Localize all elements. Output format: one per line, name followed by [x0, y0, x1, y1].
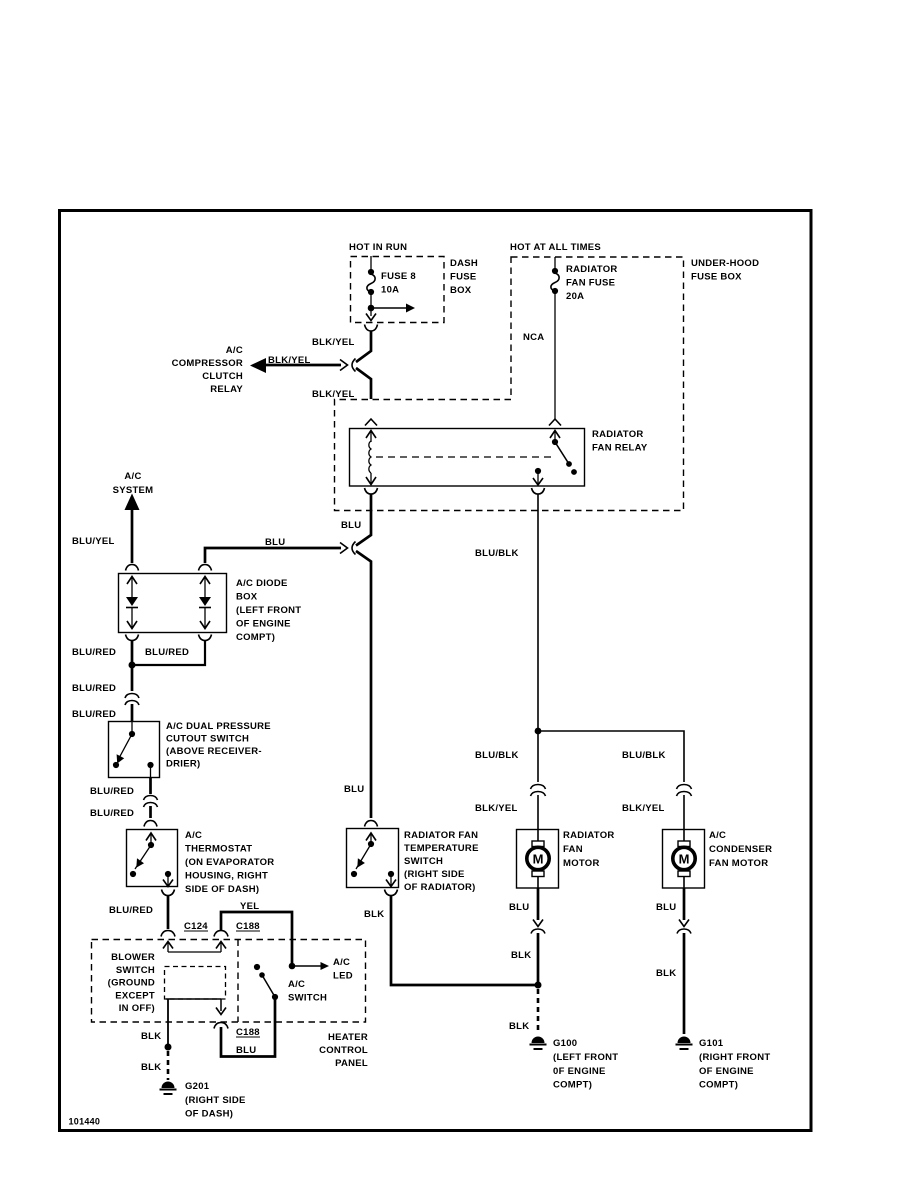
connector cup below temperature switch	[385, 890, 398, 896]
svg-text:BLU: BLU	[236, 1045, 256, 1056]
svg-text:C188: C188	[236, 1027, 260, 1038]
svg-text:C124: C124	[184, 921, 208, 932]
svg-text:A/C DIODE: A/C DIODE	[236, 578, 288, 589]
svg-text:DRIER): DRIER)	[166, 759, 200, 770]
svg-text:BLU: BLU	[656, 902, 676, 913]
svg-text:BLK/YEL: BLK/YEL	[622, 803, 665, 814]
connector hat above radiator fan temperature switch	[365, 821, 378, 827]
wire BLU to A/C switch	[221, 998, 275, 1057]
svg-text:EXCEPT: EXCEPT	[115, 990, 155, 1001]
svg-text:OF ENGINE: OF ENGINE	[699, 1066, 754, 1077]
label BLK/YEL lower	[312, 389, 355, 400]
relay switch pin arrow	[550, 431, 560, 443]
svg-text:BLK: BLK	[509, 1021, 529, 1032]
svg-text:BLK: BLK	[141, 1062, 161, 1073]
svg-text:RADIATOR: RADIATOR	[566, 264, 618, 275]
svg-text:BLK: BLK	[511, 950, 531, 961]
relay switch blade	[552, 439, 577, 475]
svg-text:BLU/YEL: BLU/YEL	[72, 536, 115, 547]
wire junction to box edge with pin arrow	[366, 308, 376, 321]
label A/C LED	[333, 957, 353, 982]
splice connector BLU	[340, 542, 356, 555]
label BLU lower	[236, 1045, 256, 1056]
under-hood fuse box outline	[335, 257, 684, 511]
svg-text:0F ENGINE: 0F ENGINE	[553, 1066, 606, 1077]
svg-text:(RIGHT FRONT: (RIGHT FRONT	[699, 1052, 770, 1063]
wire arrow to A/C system	[125, 494, 140, 564]
radiator fan motor M1	[527, 841, 549, 877]
svg-text:BOX: BOX	[236, 592, 258, 603]
label BLU/BLK top	[475, 548, 519, 559]
node junction dot A/C LED	[289, 962, 329, 970]
svg-text:COMPT): COMPT)	[699, 1080, 738, 1091]
node splice dot BLK motors	[535, 982, 542, 989]
wire into thermostat	[149, 806, 152, 818]
label BLU/RED mid	[145, 647, 189, 658]
label BLU/RED below connector	[72, 709, 116, 720]
blower switch inner dashed box	[165, 967, 226, 1000]
svg-text:BLU/RED: BLU/RED	[90, 786, 134, 797]
svg-text:SWITCH: SWITCH	[404, 856, 443, 867]
svg-text:C188: C188	[236, 921, 260, 932]
node HOT AT ALL TIMES	[510, 242, 601, 253]
svg-text:UNDER-HOOD: UNDER-HOOD	[691, 258, 759, 269]
label BLU main run	[344, 784, 364, 795]
dash fuse box outline	[351, 257, 445, 323]
radiator fan motor label	[563, 830, 615, 869]
A/C condenser fan motor M2	[673, 841, 695, 877]
svg-text:BLU/RED: BLU/RED	[90, 808, 134, 819]
svg-text:(ABOVE RECEIVER-: (ABOVE RECEIVER-	[166, 746, 262, 757]
svg-text:SWITCH: SWITCH	[116, 965, 155, 976]
connector below radiator motor	[531, 920, 545, 934]
svg-text:HEATER: HEATER	[328, 1032, 368, 1043]
svg-text:NCA: NCA	[523, 332, 544, 343]
label BLK left motor	[511, 950, 531, 961]
svg-text:HOUSING, RIGHT: HOUSING, RIGHT	[185, 871, 268, 882]
wire BLU/RED thermostat to C124	[167, 896, 170, 930]
radiator fan temperature switch box	[347, 829, 399, 888]
svg-text:RADIATOR: RADIATOR	[592, 429, 644, 440]
node HOT IN RUN	[349, 242, 407, 253]
label BLU/RED above thermostat	[90, 808, 134, 819]
svg-text:COMPRESSOR: COMPRESSOR	[172, 358, 243, 369]
svg-text:RADIATOR FAN: RADIATOR FAN	[404, 830, 478, 841]
svg-text:BLU: BLU	[341, 520, 361, 531]
label HEATER CONTROL PANEL	[319, 1032, 368, 1069]
svg-text:(ON EVAPORATOR: (ON EVAPORATOR	[185, 857, 274, 868]
svg-text:BLOWER: BLOWER	[111, 952, 155, 963]
svg-text:FAN FUSE: FAN FUSE	[566, 278, 615, 289]
wire BLU/RED splice to right branch	[132, 641, 205, 666]
svg-text:A/C: A/C	[124, 471, 141, 482]
node junction dot with branch arrow	[368, 304, 415, 313]
label BLU right motor	[656, 902, 676, 913]
svg-text:G201: G201	[185, 1081, 210, 1092]
svg-text:A/C: A/C	[709, 830, 726, 841]
svg-text:BLU/RED: BLU/RED	[72, 709, 116, 720]
svg-text:BLK: BLK	[141, 1031, 161, 1042]
svg-text:TEMPERATURE: TEMPERATURE	[404, 843, 479, 854]
svg-text:SIDE OF DASH): SIDE OF DASH)	[185, 884, 259, 895]
ground G100 label	[553, 1038, 618, 1091]
label BLU/YEL	[72, 536, 115, 547]
svg-text:A/C: A/C	[288, 979, 305, 990]
svg-text:(LEFT FRONT: (LEFT FRONT	[236, 605, 301, 616]
svg-text:20A: 20A	[566, 291, 584, 302]
label BLK/YEL left	[475, 803, 518, 814]
connector chevron above relay switch pin	[549, 419, 561, 426]
A/C thermostat label	[185, 830, 274, 895]
label BLK above G100	[509, 1021, 529, 1032]
label BLU left motor	[509, 902, 529, 913]
connector C188 upper	[214, 921, 260, 937]
svg-text:OF RADIATOR): OF RADIATOR)	[404, 882, 476, 893]
fuse F8 10A	[367, 269, 416, 296]
svg-text:CLUTCH: CLUTCH	[202, 371, 243, 382]
in-line connector right motor feed	[677, 785, 692, 797]
node splice dot BLU/RED	[129, 662, 136, 669]
fuse radiator fan 20A	[551, 264, 618, 302]
svg-text:A/C: A/C	[226, 345, 243, 356]
svg-text:BLU/RED: BLU/RED	[72, 647, 116, 658]
svg-text:BLU/BLK: BLU/BLK	[475, 548, 519, 559]
svg-text:A/C DUAL PRESSURE: A/C DUAL PRESSURE	[166, 721, 271, 732]
label A/C COMPRESSOR CLUTCH RELAY	[172, 345, 244, 395]
connector cup below dash fuse box	[365, 325, 378, 332]
svg-text:OF DASH): OF DASH)	[185, 1109, 233, 1120]
wire BLU horizontal to diode box	[205, 548, 341, 563]
label BLK lower	[141, 1062, 161, 1073]
label BLU right of splice	[341, 520, 361, 531]
splice connector to A/C compressor clutch relay	[340, 359, 356, 372]
wire BLK dashed to G201	[167, 1051, 170, 1080]
svg-text:HOT IN RUN: HOT IN RUN	[349, 242, 407, 253]
svg-text:A/C: A/C	[185, 830, 202, 841]
svg-text:BLK/YEL: BLK/YEL	[475, 803, 518, 814]
connector C124	[161, 921, 208, 937]
wire BLU/RED left branch to splice	[131, 641, 134, 664]
wire BLK blower switch down	[167, 999, 169, 1045]
svg-text:BOX: BOX	[450, 285, 472, 296]
svg-text:BLU/RED: BLU/RED	[145, 647, 189, 658]
svg-text:BLU/RED: BLU/RED	[72, 683, 116, 694]
svg-text:(RIGHT SIDE: (RIGHT SIDE	[404, 869, 465, 880]
wire BLK to G101	[683, 933, 686, 1034]
wire BLU splice down main run	[356, 551, 371, 818]
wire BLU radiator motor down	[537, 877, 539, 920]
ground G201 label	[185, 1081, 246, 1120]
connector hat above diode box left pin	[126, 565, 139, 571]
wire fuse8 feed	[370, 256, 372, 271]
svg-text:M: M	[679, 852, 690, 867]
svg-text:BLU/BLK: BLU/BLK	[475, 750, 519, 761]
label A/C SYSTEM	[113, 471, 154, 496]
label BLU/BLK left	[475, 750, 519, 761]
label BLK right motor	[656, 968, 676, 979]
svg-text:(RIGHT SIDE: (RIGHT SIDE	[185, 1095, 246, 1106]
svg-text:G101: G101	[699, 1038, 724, 1049]
svg-text:RELAY: RELAY	[210, 384, 243, 395]
svg-text:MOTOR: MOTOR	[563, 858, 600, 869]
svg-text:M: M	[533, 852, 544, 867]
svg-text:SYSTEM: SYSTEM	[113, 485, 154, 496]
svg-text:DASH: DASH	[450, 258, 478, 269]
blower switch label	[108, 952, 155, 1014]
wire BLK to splice	[537, 933, 540, 983]
svg-text:BLK/YEL: BLK/YEL	[312, 389, 355, 400]
svg-text:FAN MOTOR: FAN MOTOR	[709, 858, 768, 869]
connector chevron above relay coil pin	[365, 419, 377, 426]
wire BLU/RED splice down	[131, 665, 134, 691]
blower switch pin arrows and bar	[163, 942, 226, 953]
connector below condenser motor	[677, 920, 691, 934]
label BLK/YEL on arrow	[268, 355, 311, 366]
wire BLK/YEL down to splice	[356, 331, 371, 362]
svg-text:THERMOSTAT: THERMOSTAT	[185, 844, 252, 855]
svg-text:BLU: BLU	[344, 784, 364, 795]
A/C switch contacts and blade	[254, 964, 278, 1000]
radiator fan temperature switch label	[404, 830, 479, 893]
svg-text:BLU/BLK: BLU/BLK	[622, 750, 666, 761]
wire YEL	[221, 912, 292, 963]
dash fuse box label	[450, 258, 478, 296]
svg-text:CUTOUT SWITCH: CUTOUT SWITCH	[166, 734, 249, 745]
ground G201	[160, 1082, 177, 1094]
in-line connector left motor feed	[531, 785, 546, 797]
wire BLK/YEL into radiator fan motor	[537, 795, 539, 841]
svg-text:HOT AT ALL TIMES: HOT AT ALL TIMES	[510, 242, 601, 253]
wire radiator fan fuse feed	[554, 257, 556, 271]
node splice dot BLK	[165, 1044, 172, 1051]
A/C diode box outline	[119, 574, 227, 633]
svg-text:BLK: BLK	[656, 968, 676, 979]
dual pressure switch contacts and blade	[113, 721, 154, 777]
svg-text:BLK/YEL: BLK/YEL	[312, 337, 355, 348]
connector hat above diode box right pin	[199, 565, 212, 571]
svg-text:BLK: BLK	[364, 909, 384, 920]
label NCA	[523, 332, 544, 343]
relay internal dashed link	[376, 456, 553, 458]
radiator fan relay label	[592, 429, 648, 454]
connector cup below relay output pin	[532, 488, 545, 494]
svg-text:G100: G100	[553, 1038, 577, 1049]
svg-text:(LEFT FRONT: (LEFT FRONT	[553, 1052, 618, 1063]
svg-text:COMPT): COMPT)	[553, 1080, 592, 1091]
wire BLK dashed to G100	[537, 989, 540, 1034]
relay coil pin arrow	[366, 431, 376, 443]
label BLU/RED below dual pressure switch	[90, 786, 134, 797]
ground G100	[530, 1037, 547, 1050]
radiator fan relay box	[350, 429, 585, 487]
label BLU/BLK right	[622, 750, 666, 761]
svg-text:CONDENSER: CONDENSER	[709, 844, 772, 855]
label BLK/YEL upper	[312, 337, 355, 348]
svg-text:FAN RELAY: FAN RELAY	[592, 443, 648, 454]
label YEL	[240, 901, 259, 912]
radiator fan motor box	[517, 830, 559, 889]
svg-text:IN OFF): IN OFF)	[119, 1003, 155, 1014]
wire arrow to A/C compressor clutch relay	[250, 358, 341, 373]
label A/C SWITCH	[288, 979, 327, 1004]
wire NCA	[554, 293, 556, 419]
A/C diode box label	[236, 578, 301, 643]
svg-text:BLU: BLU	[265, 537, 285, 548]
wire BLU/RED to thermostat connector	[149, 777, 152, 794]
node junction dot BLU/BLK	[535, 728, 542, 735]
label BLK/YEL right	[622, 803, 665, 814]
relay coil bottom arrow	[366, 473, 376, 485]
wire BLK temp switch to splice	[391, 896, 535, 986]
wire BLU/BLK branch horizontal	[538, 731, 684, 782]
connector cup below thermostat	[162, 890, 175, 896]
svg-text:101440: 101440	[69, 1117, 101, 1127]
wire fuse8 to junction	[370, 294, 372, 309]
relay coil	[369, 441, 371, 473]
ground G101 label	[699, 1038, 770, 1091]
blower switch output wire and arrow to C188	[166, 999, 226, 1015]
heater control panel dashed box	[92, 940, 366, 1023]
label BLU/RED below thermostat	[109, 905, 153, 916]
svg-text:OF ENGINE: OF ENGINE	[236, 619, 291, 630]
temperature switch contacts and blade	[351, 833, 396, 887]
ground G101	[676, 1037, 693, 1050]
svg-text:COMPT): COMPT)	[236, 632, 275, 643]
connector hat above thermostat box	[144, 821, 157, 827]
thermostat contacts and blade	[130, 833, 173, 887]
connector cup below diode box right pin	[199, 635, 212, 641]
svg-text:A/C: A/C	[333, 957, 350, 968]
A/C dual pressure cutout switch label	[166, 721, 271, 770]
connector cup below diode box left pin	[126, 635, 139, 641]
svg-text:PANEL: PANEL	[335, 1058, 368, 1069]
wire BLK/YEL splice down to relay box	[356, 368, 371, 399]
svg-text:BLU: BLU	[509, 902, 529, 913]
svg-text:FUSE BOX: FUSE BOX	[691, 272, 742, 283]
diode D2 right branch	[199, 577, 211, 629]
svg-text:CONTROL: CONTROL	[319, 1045, 368, 1056]
svg-text:SWITCH: SWITCH	[288, 993, 327, 1004]
label BLU horizontal	[265, 537, 285, 548]
diode D1 left branch	[126, 577, 138, 629]
svg-text:YEL: YEL	[240, 901, 259, 912]
wire BLU condenser motor down	[683, 877, 685, 920]
label BLU/RED left of splice	[72, 647, 116, 658]
svg-text:10A: 10A	[381, 285, 399, 296]
svg-text:BLU/RED: BLU/RED	[109, 905, 153, 916]
relay switch output pin	[533, 468, 543, 485]
in-line connector on BLU/RED	[125, 694, 139, 706]
wire BLU/BLK relay output down	[537, 494, 539, 731]
under-hood fuse box label	[691, 258, 759, 283]
connector cup below relay coil pin	[365, 488, 378, 494]
label BLU/RED above connector	[72, 683, 116, 694]
svg-text:LED: LED	[333, 971, 353, 982]
wire BLU/BLK down to connector	[537, 731, 539, 782]
wire BLK/YEL into condenser fan motor	[683, 795, 685, 841]
A/C condenser fan motor box	[663, 830, 705, 889]
wire BLU relay to splice	[356, 494, 371, 546]
in-line connector above thermostat	[144, 796, 158, 808]
label BLK temp switch	[364, 909, 384, 920]
svg-text:BLK/YEL: BLK/YEL	[268, 355, 311, 366]
label BLK upper	[141, 1031, 161, 1042]
A/C thermostat box	[127, 830, 178, 887]
svg-text:FUSE 8: FUSE 8	[381, 271, 416, 282]
svg-text:FAN: FAN	[563, 844, 583, 855]
svg-text:(GROUND: (GROUND	[108, 978, 155, 989]
A/C condenser fan motor label	[709, 830, 772, 869]
connector C188 lower	[214, 1023, 260, 1039]
svg-text:FUSE: FUSE	[450, 272, 476, 283]
border frame	[60, 211, 812, 1131]
wire BLU/RED into dual pressure switch	[131, 704, 134, 721]
svg-text:RADIATOR: RADIATOR	[563, 830, 615, 841]
A/C dual pressure cutout switch box	[109, 722, 160, 778]
